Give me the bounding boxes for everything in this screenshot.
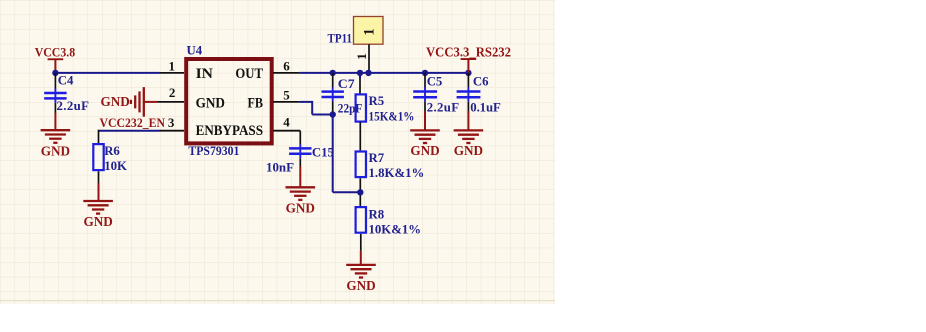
svg-text:1.8K&1%: 1.8K&1% <box>369 166 425 180</box>
svg-text:VCC232_EN: VCC232_EN <box>100 116 166 130</box>
svg-text:GND: GND <box>454 143 483 158</box>
wire EN net <box>99 130 160 132</box>
svg-text:C7: C7 <box>338 77 355 91</box>
capacitor C6 <box>457 73 501 115</box>
junction node R5 <box>357 70 363 76</box>
svg-text:10nF: 10nF <box>266 161 294 175</box>
pin 3 <box>159 115 184 131</box>
svg-text:2: 2 <box>169 85 176 100</box>
ground GND (R6) <box>83 201 113 229</box>
schematic canvas background <box>0 0 555 304</box>
wire pin 4 down to C15 <box>299 131 301 144</box>
svg-text:R5: R5 <box>369 94 385 108</box>
ground GND (C4) <box>41 130 71 158</box>
wire C5 to ground <box>424 111 426 130</box>
pin 1 <box>160 58 185 73</box>
wire down to R6 <box>98 130 100 144</box>
svg-text:FB: FB <box>248 95 264 111</box>
capacitor C4 <box>44 73 89 113</box>
svg-text:IN: IN <box>196 66 214 82</box>
pin 6 <box>273 58 299 73</box>
IC U4 TPS79301 <box>186 44 272 159</box>
resistor R6 <box>93 144 127 173</box>
svg-text:0.1uF: 0.1uF <box>470 101 501 115</box>
svg-text:C6: C6 <box>473 74 489 88</box>
junction node C6/VCC <box>465 70 471 76</box>
svg-text:22pF: 22pF <box>338 101 363 115</box>
svg-text:C4: C4 <box>58 74 74 88</box>
svg-text:C15: C15 <box>312 146 334 160</box>
svg-text:6: 6 <box>283 58 290 73</box>
capacitor C15 <box>266 144 334 175</box>
pin 5 <box>273 88 299 103</box>
svg-text:VCC3.8: VCC3.8 <box>35 44 76 59</box>
svg-text:15K&1%: 15K&1% <box>369 109 415 123</box>
svg-text:GND: GND <box>196 95 225 111</box>
svg-text:C5: C5 <box>427 74 443 88</box>
svg-text:2.2uF: 2.2uF <box>427 101 460 115</box>
wire output bus <box>299 72 468 74</box>
ground GND at pin 2 (rotated) <box>101 87 159 117</box>
svg-text:GND: GND <box>410 143 439 158</box>
svg-text:2.2uF: 2.2uF <box>57 99 90 113</box>
svg-text:U4: U4 <box>187 44 203 58</box>
wire FB down to divider <box>333 115 361 193</box>
pin 4 <box>273 115 300 131</box>
junction node FB divider <box>357 189 363 195</box>
wire R5 to R7 <box>359 122 361 150</box>
svg-text:10K: 10K <box>104 159 127 173</box>
svg-text:4: 4 <box>283 115 290 130</box>
svg-text:R7: R7 <box>369 151 385 165</box>
wire C15 to ground <box>299 166 301 187</box>
wire R8 to ground <box>360 234 362 264</box>
svg-text:1: 1 <box>354 53 369 60</box>
ground GND (C6) <box>454 130 484 158</box>
junction node C7 <box>330 70 336 76</box>
capacitor C7 <box>322 73 356 115</box>
resistor R7 <box>356 151 425 180</box>
svg-text:R6: R6 <box>104 144 120 158</box>
ground GND (R8) <box>346 265 376 293</box>
svg-text:1: 1 <box>169 58 176 73</box>
power port VCC3.8 <box>35 44 76 73</box>
svg-text:OUT: OUT <box>235 66 263 82</box>
svg-text:GND: GND <box>286 201 315 216</box>
ground GND (C5) <box>410 130 440 158</box>
test point TP11 <box>328 17 384 46</box>
svg-text:ENBYPASS: ENBYPASS <box>196 123 263 139</box>
svg-text:VCC3.3_RS232: VCC3.3_RS232 <box>426 44 511 59</box>
svg-text:GND: GND <box>41 143 70 158</box>
resistor R8 <box>356 207 422 236</box>
svg-text:GND: GND <box>346 278 375 293</box>
wire C6 to ground <box>467 111 469 130</box>
svg-text:5: 5 <box>283 88 290 103</box>
junction node TP11 <box>365 70 371 76</box>
junction node at VCC3.8/C4 <box>52 70 58 76</box>
svg-text:TP11: TP11 <box>328 32 353 46</box>
wire TP11 to bus <box>368 44 370 73</box>
junction node C5 <box>422 70 428 76</box>
svg-text:GND: GND <box>83 214 112 229</box>
svg-text:R8: R8 <box>369 207 385 221</box>
pin 2 <box>158 85 184 102</box>
svg-text:TPS79301: TPS79301 <box>188 144 239 158</box>
wire C4 to ground <box>54 113 56 130</box>
svg-text:1: 1 <box>362 28 378 35</box>
ground GND (C15) <box>286 187 316 215</box>
capacitor C5 <box>413 73 459 115</box>
svg-text:3: 3 <box>168 115 175 130</box>
junction node FB/C7 <box>330 111 336 117</box>
svg-text:GND: GND <box>101 94 130 109</box>
wire FB net from pin 5 <box>299 101 332 115</box>
power port VCC3.3_RS232 <box>426 44 511 73</box>
wire R6 to ground <box>98 171 100 200</box>
resistor R5 <box>356 73 415 124</box>
wire R7 to R8 <box>359 178 361 207</box>
wire VCC3.8 to pin 1 <box>55 72 159 74</box>
svg-text:10K&1%: 10K&1% <box>369 222 422 236</box>
